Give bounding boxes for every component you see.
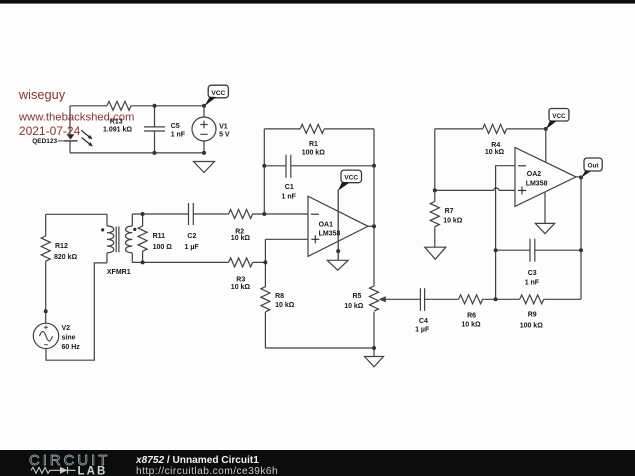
resistor R8	[261, 287, 270, 312]
svg-text:10 kΩ: 10 kΩ	[231, 235, 251, 242]
ground below OA2	[535, 223, 554, 233]
svg-text:C1: C1	[285, 184, 294, 191]
VCC tag above V1	[204, 85, 228, 106]
resistor R7	[430, 202, 439, 227]
wire V2 loop top	[46, 213, 107, 215]
VCC tag above OA1	[338, 170, 362, 191]
svg-text:60 Hz: 60 Hz	[62, 344, 81, 351]
svg-text:OA2: OA2	[527, 171, 542, 178]
wire OA2 output	[576, 176, 581, 178]
svg-text:R9: R9	[528, 311, 537, 318]
wire C1	[264, 165, 374, 167]
svg-text:R11: R11	[153, 233, 166, 240]
svg-text:R8: R8	[275, 293, 284, 300]
svg-text:sine: sine	[62, 334, 76, 341]
wire R9 to right rail	[544, 298, 581, 300]
svg-text:wiseguy: wiseguy	[18, 87, 66, 102]
ground below pot rail	[365, 357, 384, 367]
capacitor C3	[530, 239, 535, 262]
VCC tag above OA2	[546, 109, 569, 130]
op-amp OA1	[308, 190, 368, 261]
wire V2 bottom return	[46, 263, 107, 360]
svg-text:1 nF: 1 nF	[282, 193, 297, 200]
svg-text:QED123: QED123	[32, 138, 57, 145]
svg-text:XFMR1: XFMR1	[107, 269, 131, 276]
wire mid rail node	[496, 166, 515, 300]
svg-text:R3: R3	[236, 276, 245, 283]
svg-text:http://circuitlab.com/ce39k6h: http://circuitlab.com/ce39k6h	[136, 466, 278, 476]
wire R7 leads	[434, 190, 436, 247]
svg-text:R7: R7	[445, 208, 454, 215]
svg-text:10 kΩ: 10 kΩ	[443, 218, 463, 225]
op-amp OA2	[515, 147, 576, 206]
Out tag	[581, 158, 602, 178]
svg-text:R5: R5	[353, 293, 362, 300]
potentiometer R5 wiper arrow	[379, 296, 386, 302]
svg-text:10 kΩ: 10 kΩ	[344, 303, 364, 310]
svg-text:VCC: VCC	[552, 113, 566, 120]
wire C3 horizontal	[496, 249, 581, 251]
svg-text:LM358: LM358	[319, 231, 341, 238]
svg-text:VCC: VCC	[211, 90, 225, 97]
svg-text:LAB: LAB	[78, 465, 108, 476]
svg-text:C3: C3	[528, 270, 537, 277]
svg-text:100 kΩ: 100 kΩ	[520, 322, 544, 329]
svg-text:10 kΩ: 10 kΩ	[275, 302, 295, 309]
wire xfmr secondary leads	[131, 214, 133, 262]
svg-text:R4: R4	[491, 142, 500, 149]
svg-text:1 µF: 1 µF	[415, 327, 430, 334]
bottom bar	[0, 450, 635, 476]
wire R12 leads	[45, 214, 47, 323]
resistor R12	[41, 236, 50, 261]
svg-text:VCC: VCC	[344, 174, 358, 181]
wire pot wiper to C4	[385, 298, 420, 300]
svg-text:www.thebackshed.com: www.thebackshed.com	[18, 111, 135, 123]
svg-text:1 nF: 1 nF	[525, 279, 540, 286]
svg-text:V1: V1	[219, 123, 228, 130]
svg-text:OA1: OA1	[319, 221, 334, 228]
svg-text:820 kΩ: 820 kΩ	[54, 254, 78, 261]
wire OA1 output	[368, 225, 374, 227]
wire bottom rail R8 to gnd	[265, 347, 374, 349]
wire R2 to OA1 minus	[253, 213, 308, 215]
svg-text:LM358: LM358	[526, 181, 548, 188]
potentiometer R5	[370, 286, 379, 311]
resistor R9	[520, 295, 544, 304]
svg-text:Out: Out	[588, 162, 600, 169]
svg-text:R6: R6	[467, 313, 476, 320]
wire OA1 left rail	[263, 129, 265, 214]
resistor R13	[107, 101, 131, 110]
svg-text:100 Ω: 100 Ω	[153, 244, 173, 251]
svg-text:10 kΩ: 10 kΩ	[485, 149, 505, 156]
wire QA2 V- pin	[544, 192, 546, 223]
wire QA2 plus input	[435, 188, 515, 190]
wire R4 top	[435, 128, 546, 130]
ground below V1	[194, 162, 215, 173]
transformer XFMR1	[101, 226, 136, 253]
svg-text:V2: V2	[62, 325, 71, 332]
wire gnd stem below pot rail	[373, 348, 375, 357]
resistor R1	[300, 124, 324, 133]
resistor R3	[229, 258, 253, 267]
ground below OA1	[327, 260, 348, 270]
wire V1 leads	[203, 106, 205, 153]
svg-text:C5: C5	[171, 123, 180, 130]
resistor R4	[483, 124, 507, 133]
svg-text:R12: R12	[55, 243, 68, 250]
wire R11 leads	[142, 214, 144, 262]
svg-text:C2: C2	[187, 233, 196, 240]
CircuitLab logo resistor-diode symbol	[31, 467, 76, 474]
capacitor C1	[286, 155, 291, 178]
wire R1 top	[264, 128, 374, 130]
ground below R7	[425, 247, 446, 259]
wire xfmr primary leads	[106, 214, 108, 263]
wire R8 leads	[264, 262, 266, 348]
wire OA1 right rail	[373, 129, 375, 348]
svg-text:10 kΩ: 10 kΩ	[231, 284, 251, 291]
wire LED loop top	[70, 105, 204, 107]
svg-text:R1: R1	[309, 141, 318, 148]
wire R4 left rail	[434, 129, 436, 191]
svg-text:100 kΩ: 100 kΩ	[302, 150, 326, 157]
wire LED left vertical	[69, 106, 71, 153]
svg-text:2021-07-24: 2021-07-24	[19, 124, 81, 138]
svg-text:1 nF: 1 nF	[171, 132, 186, 139]
LED QED123	[58, 130, 93, 146]
svg-text:5 V: 5 V	[219, 132, 230, 139]
wire R6 to R9	[483, 298, 520, 300]
wire LED loop bottom	[70, 152, 204, 154]
voltage source V1	[192, 117, 216, 141]
svg-text:10 kΩ: 10 kΩ	[461, 321, 481, 328]
svg-text:1.091 kΩ: 1.091 kΩ	[103, 127, 132, 134]
capacitor C2	[189, 203, 194, 225]
wire C5 branch	[154, 106, 156, 153]
wire secondary bottom	[132, 261, 265, 263]
wire plus jog OA1	[265, 239, 308, 262]
wire secondary top	[132, 213, 228, 215]
resistor R6	[459, 295, 483, 304]
voltage source V2 sine	[33, 323, 58, 348]
wire QA2 right rail	[580, 177, 582, 299]
wire C4 to R6	[425, 298, 459, 300]
top bar	[0, 0, 635, 4]
capacitor C5	[144, 127, 165, 131]
svg-text:1 µF: 1 µF	[185, 244, 200, 251]
resistor R2	[229, 210, 253, 219]
svg-text:x8752 / Unnamed Circuit1: x8752 / Unnamed Circuit1	[135, 455, 259, 466]
svg-text:C4: C4	[419, 318, 428, 325]
capacitor C4	[420, 288, 424, 311]
wire QA2 V+ pin	[545, 129, 547, 163]
resistor R11	[138, 226, 147, 251]
